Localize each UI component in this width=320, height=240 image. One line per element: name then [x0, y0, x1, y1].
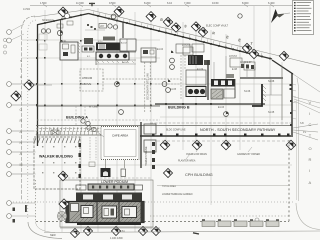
top grid diamond markers [58, 7, 289, 61]
bottom dimension ticks [60, 227, 160, 229]
svg-text:8.000: 8.000 [242, 1, 249, 5]
svg-text:W. LINE: W. LINE [89, 106, 98, 109]
graham street vertical text [20, 59, 24, 167]
podium niche icon [101, 168, 111, 177]
pathway band top line [36, 125, 291, 127]
dotted property line bottom [10, 201, 294, 203]
svg-text:E1.03: E1.03 [218, 107, 225, 109]
right side leader lines [293, 124, 318, 140]
walker top hatch band [36, 127, 98, 135]
svg-text:6.400: 6.400 [268, 1, 275, 5]
svg-text:S1.08: S1.08 [268, 80, 275, 83]
B stair block [188, 55, 203, 65]
bottom curb lines [44, 231, 320, 233]
B room under cells [186, 70, 206, 85]
west property line [22, 16, 37, 218]
podium main body [66, 202, 144, 223]
west dotted curb [35, 180, 37, 221]
building A south edge [36, 105, 160, 107]
building A column dots [36, 39, 212, 106]
street corner bend [272, 60, 293, 74]
east room lines [281, 66, 283, 120]
bottom scale rects [202, 221, 279, 227]
svg-text:C: C [309, 122, 312, 127]
bottom-left curb corner arc [28, 222, 62, 239]
podium top step [88, 184, 134, 190]
svg-text:E1.05: E1.05 [170, 89, 177, 91]
walkway dashed rows left of cafe [36, 129, 101, 132]
pathway band dashed above [150, 122, 291, 124]
bottom diamond markers [58, 171, 160, 237]
svg-text:NORTH - SOUTH SECONDARY PATHWA: NORTH - SOUTH SECONDARY PATHWAY [200, 128, 276, 132]
B hatched square [211, 89, 223, 99]
misc callout smudges upper left [23, 9, 105, 28]
north arrow [271, 9, 290, 23]
core lower connector [60, 59, 136, 61]
walker interior dots [42, 146, 76, 173]
core right rooms [120, 39, 136, 51]
B cells row [186, 87, 206, 97]
svg-text:A: A [309, 180, 312, 185]
walker building outline [34, 137, 80, 189]
svg-text:14.500: 14.500 [23, 9, 31, 11]
small circle marker bottom [255, 218, 259, 222]
svg-text:R: R [309, 157, 312, 162]
svg-text:S1.05: S1.05 [268, 111, 275, 114]
svg-text:0.61: 0.61 [120, 230, 125, 233]
pathway columns [152, 134, 290, 137]
svg-text:BUILDING B: BUILDING B [168, 106, 190, 110]
podium dark band [76, 193, 142, 202]
svg-text:TOWER STR LINE: TOWER STR LINE [146, 146, 148, 166]
svg-text:LOWER TERRACE GARDEN: LOWER TERRACE GARDEN [162, 193, 193, 196]
podium side boxes at step level [76, 185, 86, 190]
podium internal dark dividers [96, 202, 98, 222]
svg-text:SECONDARY SITE LINK: SECONDARY SITE LINK [147, 73, 150, 100]
pathway band bottom thick line [140, 135, 291, 137]
svg-text:A1.02: A1.02 [121, 42, 127, 45]
svg-text:AT.ST.8: AT.ST.8 [229, 55, 237, 58]
svg-text:BLDG COMP LINE: BLDG COMP LINE [166, 130, 186, 132]
svg-text:R: R [20, 119, 23, 123]
core left room [60, 42, 78, 60]
core stair block [96, 43, 120, 51]
column dots along street diagonal [97, 15, 271, 59]
svg-text:WALKER BUILDING: WALKER BUILDING [39, 155, 73, 159]
podium hatch [68, 202, 142, 222]
building B south edge [155, 103, 265, 105]
svg-text:S.B: S.B [300, 123, 304, 125]
roof edge marks [87, 24, 96, 30]
svg-text:ATRIUM: ATRIUM [82, 76, 93, 80]
building B core [176, 44, 235, 100]
svg-text:ST-2: ST-2 [98, 41, 103, 43]
svg-text:E.08: E.08 [232, 68, 238, 71]
dashed line from atrium east [103, 78, 181, 80]
legend box top right [293, 1, 314, 35]
svg-text:I: I [309, 168, 310, 173]
building A core cluster [60, 37, 136, 66]
top dimension line [30, 4, 292, 7]
svg-text:7.300: 7.300 [184, 1, 191, 5]
victoria street vertical text [309, 100, 312, 185]
building north wall along street [89, 14, 273, 60]
diagonal street name letters [160, 18, 254, 47]
top dimension texts [40, 1, 275, 5]
corridor marks between walker and cafe [89, 137, 91, 160]
podium bottom thick edge [77, 223, 141, 225]
faint horizontal [157, 185, 290, 187]
wall drop from street at x=123 [122, 22, 124, 38]
svg-text:CPH BUILDING: CPH BUILDING [185, 172, 213, 177]
svg-text:9.150: 9.150 [212, 1, 219, 5]
svg-text:SIDEWALK: SIDEWALK [42, 19, 54, 22]
bottom small texts [50, 230, 125, 240]
svg-text:ABOVE: ABOVE [82, 82, 91, 86]
east top wall [240, 77, 283, 79]
bottom-right curb corner arc [296, 203, 320, 230]
street sidewalk hatch band [93, 11, 262, 57]
tree symbol [57, 211, 66, 220]
atrium label [82, 76, 93, 86]
east wall [291, 73, 293, 137]
core top small marks [84, 38, 93, 44]
atrium above dashed box [80, 69, 103, 91]
svg-text:ELEC COMP VAULT: ELEC COMP VAULT [206, 25, 229, 28]
east cells [241, 64, 244, 68]
svg-text:PLANTER AREA: PLANTER AREA [178, 160, 196, 163]
small box marker [51, 130, 59, 135]
east sidewalk ticks [293, 84, 297, 119]
marks between cafe and podium [105, 160, 107, 169]
left diamond markers [24, 80, 34, 90]
svg-text:S: S [20, 59, 22, 63]
column dots along roof slope [44, 14, 82, 24]
B right small rooms [224, 89, 235, 98]
svg-text:H: H [20, 141, 23, 145]
svg-text:9.500: 9.500 [109, 1, 116, 5]
diamond markers below pathway [160, 140, 296, 177]
building A west wall [37, 25, 39, 147]
elevator cells row [96, 52, 129, 60]
rooms along street in building B [183, 47, 255, 70]
left grid bubbles [7, 24, 36, 223]
podium door rect [121, 169, 126, 177]
walker east wall dark blobs [79, 143, 82, 178]
north property line (thin, above roof) [34, 10, 89, 18]
secondary site link dashed corridor [144, 62, 146, 112]
svg-text:E1.09: E1.09 [197, 69, 204, 71]
lobby marker box [99, 24, 107, 29]
dashed interior building A lines [37, 106, 160, 125]
svg-text:I: I [309, 111, 310, 116]
cafe area box [101, 127, 139, 160]
column grid lines vertical [45, 6, 282, 232]
dark ticks on east wall [290, 84, 293, 126]
svg-text:OVERFLOW DRAIN: OVERFLOW DRAIN [186, 153, 207, 156]
svg-text:AT.ST.6: AT.ST.6 [182, 44, 190, 47]
east rooms beside cafe [141, 122, 156, 168]
svg-text:CAFE AREA: CAFE AREA [112, 134, 128, 138]
column grid lines horizontal [10, 40, 292, 174]
svg-text:11.500: 11.500 [76, 1, 84, 5]
left margin small stack [3, 38, 6, 54]
svg-text:6.10: 6.10 [167, 1, 173, 5]
east street curb [293, 74, 320, 92]
podium side walls [66, 202, 70, 223]
cafe marker circles [87, 126, 91, 130]
svg-text:S1.06: S1.06 [244, 90, 251, 93]
svg-text:O: O [309, 146, 312, 151]
svg-text:G: G [20, 108, 23, 112]
callouts under pathway [162, 153, 260, 196]
podium rooms [81, 206, 93, 218]
svg-text:E1.04: E1.04 [157, 49, 164, 51]
svg-text:T: T [20, 67, 22, 71]
building A roof left slope [37, 14, 89, 25]
B corridor band with doors [211, 79, 235, 87]
east dotted property line [288, 140, 290, 222]
walker hatch top edge [34, 138, 80, 143]
svg-text:8.200: 8.200 [144, 1, 151, 5]
svg-text:NEW: NEW [50, 234, 56, 237]
scattered circle markers [41, 14, 242, 126]
east L wall [252, 84, 262, 106]
svg-text:GARDEN BY OWNER: GARDEN BY OWNER [237, 153, 260, 156]
core hatch ticks [78, 42, 134, 63]
street diagonal thin upper line [89, 10, 320, 66]
svg-text:1.500: 1.500 [40, 1, 47, 5]
B wall vertical [207, 60, 209, 100]
lower podium terrace outline [60, 180, 153, 227]
CPH upper east rooms [232, 61, 283, 120]
svg-text:LOWER PODIUM: LOWER PODIUM [101, 180, 128, 184]
core tiny labels [62, 41, 128, 65]
